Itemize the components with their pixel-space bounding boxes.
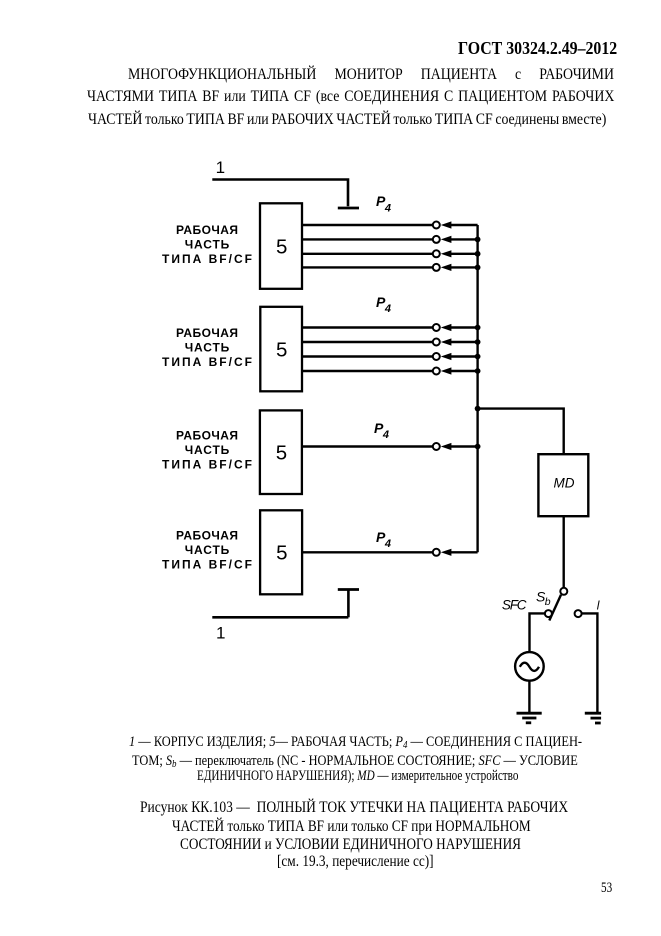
label РАБОЧАЯ ЧАСТЬ ТИПА BF/CF (#1): [162, 223, 252, 266]
svg-text:РАБОЧАЯ: РАБОЧАЯ: [176, 428, 238, 442]
label РАБОЧАЯ ЧАСТЬ ТИПА BF/CF (#3): [162, 428, 252, 471]
patient connection terminal of box 3: [433, 443, 440, 450]
svg-text:4: 4: [384, 303, 391, 315]
legend line 3: [197, 769, 518, 784]
paragraph line 1 (indented): [128, 66, 614, 82]
svg-text:ЧАСТЬ: ЧАСТЬ: [185, 543, 230, 557]
svg-text:5: 5: [276, 442, 287, 465]
applied part box 5 (#1): [260, 203, 302, 288]
arrowheads into terminals of box 1: [441, 221, 452, 271]
wire normal throw to ground: [582, 613, 598, 712]
page number: [601, 881, 612, 896]
patient connection wire of box 4: [302, 551, 478, 553]
patient connection terminal of box 4: [433, 549, 440, 556]
wire MD to switch Sb: [563, 516, 565, 587]
svg-text:SFC: SFC: [502, 597, 527, 612]
switch throw terminal (SFC side): [545, 610, 552, 617]
arrowhead into terminal of box 3: [441, 443, 452, 450]
patient connection wires of box 2: [302, 328, 478, 372]
svg-text:ТИПА BF/CF: ТИПА BF/CF: [162, 252, 252, 266]
figure caption line 1: [140, 799, 568, 815]
applied part box 5 (#3): [260, 410, 302, 494]
enclosure terminal bar (top): [338, 207, 359, 210]
svg-text:РАБОЧАЯ: РАБОЧАЯ: [176, 223, 238, 237]
svg-text:5: 5: [276, 338, 287, 361]
patient connection terminals of box 1: [433, 222, 440, 271]
label P4 (#1): [376, 193, 391, 214]
svg-text:4: 4: [382, 429, 389, 441]
figure caption line 2: [172, 818, 531, 834]
svg-text:ТИПА BF/CF: ТИПА BF/CF: [162, 457, 252, 471]
label РАБОЧАЯ ЧАСТЬ ТИПА BF/CF (#4): [162, 529, 252, 572]
svg-text:5: 5: [276, 235, 287, 258]
wire bus to measuring device MD: [478, 409, 564, 455]
junction dots on bus: [475, 237, 481, 450]
arrowhead into terminal of box 4: [441, 549, 452, 556]
svg-text:1: 1: [216, 158, 225, 177]
paragraph line 3: [88, 111, 606, 127]
label P4 (#4): [376, 529, 391, 550]
patient connection wires of box 1: [302, 225, 478, 267]
svg-text:ЧАСТЬ: ЧАСТЬ: [185, 443, 230, 457]
switch Sb common terminal: [560, 588, 567, 595]
applied part box 5 (#4): [260, 510, 302, 594]
wire from enclosure 1 (top): [212, 180, 348, 207]
wire riser to enclosure terminal (bottom): [347, 589, 350, 617]
svg-text:MD: MD: [554, 476, 575, 491]
label РАБОЧАЯ ЧАСТЬ ТИПА BF/CF (#2): [162, 326, 252, 369]
ground (left): [517, 713, 542, 723]
AC source: [515, 652, 544, 681]
patient connection wire of box 3: [302, 445, 478, 447]
svg-text:5: 5: [276, 542, 287, 565]
svg-text:РАБОЧАЯ: РАБОЧАЯ: [176, 529, 238, 543]
svg-text:ЧАСТЬ: ЧАСТЬ: [185, 340, 230, 354]
legend line 2: [132, 754, 578, 769]
label P4 (#2): [376, 294, 391, 315]
wire SFC throw to source: [530, 613, 545, 651]
paragraph line 2: [87, 88, 614, 104]
svg-text:ТИПА BF/CF: ТИПА BF/CF: [162, 355, 252, 369]
wire source to ground: [528, 681, 530, 712]
svg-text:ЧАСТЬ: ЧАСТЬ: [185, 238, 230, 252]
measuring device MD: [538, 454, 588, 516]
label Sb: [536, 589, 551, 608]
switch throw terminal (normal side): [575, 610, 582, 617]
svg-text:ТИПА BF/CF: ТИПА BF/CF: [162, 558, 252, 572]
svg-text:РАБОЧАЯ: РАБОЧАЯ: [176, 326, 238, 340]
svg-text:1: 1: [216, 624, 225, 643]
svg-text:4: 4: [384, 538, 391, 550]
enclosure terminal bar (bottom): [338, 588, 359, 591]
ground (right): [585, 713, 601, 723]
arrowheads into terminals of box 2: [441, 324, 452, 375]
applied part box 5 (#2): [260, 307, 302, 392]
svg-text:l: l: [597, 598, 600, 612]
svg-text:b: b: [545, 596, 551, 608]
patient connection terminals of box 2: [433, 324, 440, 375]
header: ГОСТ number: [458, 39, 617, 57]
label P4 (#3): [374, 420, 389, 441]
legend line 1: [129, 735, 582, 750]
switch Sb blade: [549, 595, 561, 621]
figure caption line 3: [180, 836, 521, 852]
common bus wire (right vertical): [476, 225, 478, 552]
wire from enclosure 1 (bottom): [212, 616, 348, 619]
svg-text:4: 4: [384, 202, 391, 214]
figure caption line 4: [277, 853, 434, 869]
